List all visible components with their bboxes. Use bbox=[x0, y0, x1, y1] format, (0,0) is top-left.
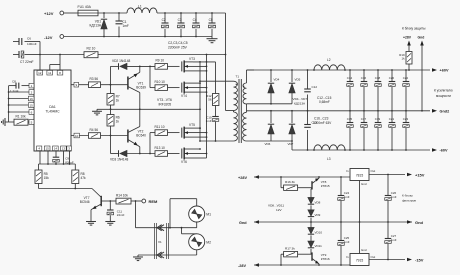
motor M2 fan bbox=[189, 234, 211, 250]
svg-text:VD4: VD4 bbox=[274, 78, 280, 82]
svg-text:BC546: BC546 bbox=[80, 200, 90, 204]
resistor R4 56 bbox=[89, 128, 101, 139]
transformer T1 secondary upper bbox=[243, 70, 254, 104]
svg-text:12V: 12V bbox=[276, 208, 282, 212]
svg-text:мощности: мощности bbox=[436, 94, 451, 98]
svg-text:15: 15 bbox=[30, 103, 34, 107]
transformer T1 primary lower bbox=[234, 112, 238, 141]
svg-text:1000mF 63V: 1000mF 63V bbox=[313, 121, 332, 125]
svg-text:C7 22mF: C7 22mF bbox=[20, 60, 34, 64]
svg-text:VT4: VT4 bbox=[181, 94, 187, 98]
wire +12V to fuse bbox=[64, 12, 78, 14]
label to power amplifier bbox=[434, 88, 453, 98]
svg-text:VD6: VD6 bbox=[265, 142, 271, 146]
capacitor C13 0.68mF bbox=[304, 111, 317, 150]
svg-text:22mF: 22mF bbox=[117, 213, 125, 217]
svg-text:C5: C5 bbox=[209, 18, 213, 22]
op-amp U3 regulator 7915 bbox=[346, 222, 375, 266]
svg-text:1mF: 1mF bbox=[344, 195, 350, 199]
svg-text:-12V: -12V bbox=[44, 35, 53, 40]
wire -12V rail bbox=[64, 36, 212, 38]
wire 7915 out rail bbox=[369, 259, 405, 261]
capacitor C10 1mF snubber bbox=[206, 106, 219, 142]
svg-text:1k: 1k bbox=[402, 57, 406, 61]
ground (input filter) bbox=[207, 37, 218, 43]
label C2..C5 value bbox=[168, 41, 188, 49]
resistor R9 10 bbox=[155, 59, 168, 69]
label C16..C23 value bbox=[313, 117, 332, 125]
wire M1 bottom bbox=[196, 222, 198, 228]
resistor R14 10k bbox=[116, 193, 131, 204]
diode VD9 zener bbox=[308, 210, 321, 217]
svg-text:C16: C16 bbox=[361, 76, 367, 80]
transistor Q7 VT7 BC546 bbox=[80, 189, 101, 220]
transistor Q4 VT4 IRF3205 bbox=[181, 82, 207, 98]
svg-text:X1: X1 bbox=[158, 240, 162, 244]
wire pins 11/8 to VCC bbox=[50, 54, 61, 65]
svg-text:C21: C21 bbox=[389, 117, 395, 121]
inductor L1 bbox=[127, 5, 157, 14]
motor M1 fan bbox=[189, 206, 211, 222]
svg-text:C20: C20 bbox=[389, 76, 395, 80]
capacitor C11 22mF bbox=[107, 201, 125, 220]
svg-text:VD10: VD10 bbox=[315, 230, 323, 234]
svg-text:C17: C17 bbox=[361, 117, 367, 121]
svg-text:R16 3k: R16 3k bbox=[285, 180, 295, 184]
svg-text:In: In bbox=[346, 255, 349, 259]
svg-text:12: 12 bbox=[38, 71, 42, 75]
node +15V output bbox=[407, 173, 425, 178]
pin 4 bbox=[37, 146, 42, 164]
svg-text:TL494MC: TL494MC bbox=[46, 110, 61, 114]
wire R13 to VT6 gate bbox=[168, 153, 180, 155]
svg-text:1mF: 1mF bbox=[391, 195, 397, 199]
svg-text:C4: C4 bbox=[193, 18, 197, 22]
label to filter block bbox=[402, 194, 416, 203]
svg-text:КТ815: КТ815 bbox=[321, 184, 330, 188]
svg-text:Gnd: Gnd bbox=[239, 221, 247, 225]
svg-text:R17 3k: R17 3k bbox=[285, 247, 295, 251]
label VT3..VT6 type bbox=[157, 98, 172, 106]
svg-text:16: 16 bbox=[30, 97, 34, 101]
pin 15b bbox=[44, 146, 50, 164]
pin 12 bbox=[37, 68, 43, 75]
wire VD11 to VT9 base bbox=[310, 249, 312, 255]
wire fuse to L1 bbox=[98, 12, 127, 14]
svg-text:Gnd2: Gnd2 bbox=[440, 109, 450, 113]
svg-text:VD3 1N4148: VD3 1N4148 bbox=[110, 158, 128, 162]
svg-text:C23: C23 bbox=[403, 117, 409, 121]
svg-text:2200mF 25V: 2200mF 25V bbox=[168, 45, 188, 49]
wire aux - rail bbox=[254, 264, 350, 266]
label VD8..VD11 bbox=[268, 203, 284, 211]
svg-text:FU1 40A: FU1 40A bbox=[78, 5, 92, 9]
wire source bus bbox=[206, 55, 208, 159]
svg-text:C22: C22 bbox=[403, 76, 409, 80]
resistor R2 10 bbox=[40, 47, 98, 58]
node REM terminal bbox=[142, 199, 158, 204]
capacitor C2 bbox=[162, 13, 169, 37]
svg-text:R9 10: R9 10 bbox=[156, 59, 165, 63]
wire VD2 to R9 node bbox=[127, 66, 155, 68]
svg-text:Gnd: Gnd bbox=[415, 220, 424, 225]
svg-text:VT3...VT6: VT3...VT6 bbox=[157, 98, 172, 102]
svg-text:+28V: +28V bbox=[403, 36, 412, 40]
svg-text:C18: C18 bbox=[375, 76, 381, 80]
svg-text:C14: C14 bbox=[347, 76, 353, 80]
svg-text:0,68mF: 0,68mF bbox=[319, 100, 330, 104]
wire R11 branch bbox=[150, 133, 155, 154]
wire bottom pins bus bbox=[39, 163, 76, 165]
transistor Q8 VT8 KT815 bbox=[298, 177, 330, 197]
svg-text:47k: 47k bbox=[81, 176, 87, 180]
diode VD2 1N4148 bbox=[112, 59, 130, 69]
wire centre-tap vertical bbox=[225, 13, 227, 111]
node -28V aux input bbox=[238, 263, 259, 268]
svg-text:100mF: 100mF bbox=[27, 42, 37, 46]
svg-text:К усилителю: К усилителю bbox=[434, 88, 453, 92]
wire Gnd tap to protection bbox=[420, 41, 424, 112]
wire R9 to VT3 gate bbox=[168, 65, 180, 67]
svg-text:VD9: VD9 bbox=[315, 213, 321, 217]
pin 15 wire bbox=[8, 103, 34, 108]
svg-text:VD5: VD5 bbox=[295, 78, 301, 82]
connector X1 housing bbox=[155, 223, 169, 259]
label VD4..VD7 type bbox=[293, 97, 308, 105]
resistor R6 1k bbox=[107, 109, 120, 135]
svg-text:1mF: 1mF bbox=[123, 24, 129, 28]
pin 16 wire bbox=[8, 96, 34, 101]
svg-text:1k: 1k bbox=[116, 119, 120, 123]
capacitor C9 820nF bbox=[53, 157, 74, 165]
diode VD4 bbox=[268, 70, 280, 105]
capacitor C24 1mF bbox=[338, 177, 350, 222]
node -15V output bbox=[407, 258, 424, 263]
svg-text:-15V: -15V bbox=[415, 258, 424, 263]
capacitor C7 22mF bbox=[13, 51, 40, 64]
label C12..C15 value bbox=[317, 96, 332, 104]
wire secondary tap lower bbox=[247, 141, 293, 150]
svg-text:56: 56 bbox=[208, 98, 212, 102]
pin 14 bbox=[53, 146, 59, 157]
wire secondary tap upper bbox=[247, 103, 293, 105]
svg-text:C12: C12 bbox=[312, 85, 318, 89]
resistor R10 10 bbox=[155, 80, 168, 90]
svg-text:BC639: BC639 bbox=[136, 86, 146, 90]
svg-text:BC640: BC640 bbox=[136, 134, 146, 138]
pin 2 wire bbox=[8, 90, 34, 95]
svg-text:VD7: VD7 bbox=[288, 142, 294, 146]
wire C6/C7 junction to IC pin12 bbox=[39, 42, 41, 69]
svg-text:C2: C2 bbox=[162, 18, 166, 22]
wire R4 to VT2 base bbox=[101, 135, 128, 137]
transistor Q3 VT3 IRF3205 bbox=[182, 57, 216, 73]
wire L1 to filter caps bbox=[157, 12, 226, 14]
wire R10 to VT4 gate bbox=[168, 87, 180, 89]
connector X1 upper contact bbox=[157, 225, 164, 231]
capacitor C17 bbox=[361, 111, 368, 151]
svg-text:Gnd: Gnd bbox=[361, 182, 367, 186]
wire pin10 line bbox=[71, 133, 89, 138]
node +28V aux input bbox=[238, 175, 259, 180]
resistor R11 10 bbox=[155, 125, 168, 135]
transformer T1 primary upper bbox=[234, 81, 238, 110]
diode VD6 bbox=[265, 111, 275, 146]
pin 3 bbox=[67, 146, 72, 164]
resistor R8 47k bbox=[72, 164, 86, 189]
svg-text:Out: Out bbox=[371, 169, 376, 173]
node +60V output bbox=[432, 68, 449, 72]
wire R14 to REM bbox=[131, 200, 142, 202]
wire aux + rail bbox=[254, 176, 350, 178]
svg-text:VD8: VD8 bbox=[315, 200, 321, 204]
capacitor C14 bbox=[347, 69, 354, 112]
svg-text:C6: C6 bbox=[27, 37, 31, 41]
svg-text:15: 15 bbox=[46, 147, 50, 151]
resistor R16 3k bbox=[281, 177, 298, 190]
svg-text:R2 10: R2 10 bbox=[87, 47, 96, 51]
diode VD10 zener bbox=[308, 222, 323, 234]
wire R11 to VT5 gate bbox=[168, 132, 180, 134]
inductor L3 bbox=[313, 145, 346, 161]
svg-text:DA1: DA1 bbox=[49, 105, 56, 109]
wire R2 to transformer centre-tap drop bbox=[98, 54, 226, 56]
transistor Q2 VT2 BC640 bbox=[128, 109, 146, 153]
capacitor C21 bbox=[389, 111, 396, 151]
wire M2 bottom to ground bbox=[138, 250, 197, 255]
capacitor C4 bbox=[193, 13, 200, 37]
wire mid rail Gnd2 bbox=[247, 110, 431, 112]
svg-text:11: 11 bbox=[48, 71, 51, 75]
svg-text:VT3: VT3 bbox=[189, 57, 195, 61]
transformer T1 core bbox=[236, 75, 242, 144]
svg-text:-60V: -60V bbox=[440, 149, 448, 153]
capacitor C22 bbox=[403, 69, 410, 112]
fuse FU1 40A bbox=[78, 5, 99, 16]
wire centre tap bbox=[226, 111, 234, 113]
resistor R7 1k bbox=[107, 85, 120, 110]
svg-text:К блоку: К блоку bbox=[402, 194, 413, 198]
svg-text:R11 10: R11 10 bbox=[155, 125, 165, 129]
wire R3 to VT1 base bbox=[101, 84, 128, 86]
wire pin9 line bbox=[71, 82, 89, 87]
node Gnd aux input bbox=[239, 220, 259, 225]
wire drain bus lower bbox=[199, 140, 233, 142]
svg-text:R10 10: R10 10 bbox=[155, 80, 166, 84]
transformer T1 secondary lower bbox=[243, 104, 247, 141]
wire left pins common bus bbox=[8, 86, 10, 122]
node -60V output bbox=[432, 148, 448, 152]
svg-text:R4 56: R4 56 bbox=[90, 128, 99, 132]
svg-text:13: 13 bbox=[62, 147, 66, 151]
wire drain bus upper bbox=[199, 62, 233, 141]
wire VD8-VD9 bbox=[310, 205, 312, 209]
svg-text:Out: Out bbox=[371, 255, 376, 259]
svg-text:фильтров: фильтров bbox=[402, 198, 416, 202]
wire M2 top branch bbox=[182, 228, 197, 234]
node +12V input terminal bbox=[44, 11, 64, 16]
svg-text:К блоку защиты: К блоку защиты bbox=[402, 26, 426, 30]
svg-text:1mF: 1mF bbox=[391, 238, 397, 242]
svg-text:REM: REM bbox=[149, 199, 159, 204]
svg-text:M2: M2 bbox=[206, 240, 211, 244]
svg-text:VD8...VD11: VD8...VD11 bbox=[268, 203, 284, 207]
svg-text:T1: T1 bbox=[236, 75, 240, 79]
wire REM to fans bbox=[136, 201, 197, 229]
capacitor C3 bbox=[178, 13, 185, 37]
svg-text:C8: C8 bbox=[12, 80, 16, 84]
svg-text:In: In bbox=[346, 169, 349, 173]
op-amp U1 PWM controller DA1 TL494 bbox=[34, 70, 71, 151]
svg-text:C19: C19 bbox=[375, 117, 381, 121]
capacitor C18 bbox=[375, 69, 382, 112]
transistor Q1 VT1 BC639 bbox=[128, 66, 146, 109]
svg-text:L2: L2 bbox=[327, 58, 331, 62]
wire aux gnd rail bbox=[254, 221, 412, 223]
svg-text:КД213А: КД213А bbox=[90, 23, 102, 27]
wire -rect rail bbox=[292, 149, 430, 151]
svg-text:1mF: 1mF bbox=[206, 119, 212, 123]
node -12V input terminal bbox=[44, 35, 64, 41]
svg-text:7915: 7915 bbox=[356, 258, 364, 262]
svg-text:7815: 7815 bbox=[356, 173, 364, 177]
capacitor C27 1mF bbox=[385, 222, 397, 260]
capacitor C19 bbox=[375, 111, 382, 151]
wire 7815 out rail bbox=[369, 174, 405, 176]
diode VD3 1N4148 bbox=[110, 150, 128, 161]
svg-text:1k: 1k bbox=[116, 98, 120, 102]
svg-text:-28V: -28V bbox=[238, 264, 246, 268]
svg-text:R3 56: R3 56 bbox=[90, 77, 99, 81]
ground (C11) bbox=[105, 220, 115, 226]
svg-text:L1: L1 bbox=[138, 5, 142, 9]
svg-text:VD11: VD11 bbox=[315, 244, 323, 248]
diode VD5 bbox=[289, 70, 301, 104]
resistor R5 15k bbox=[35, 164, 49, 189]
svg-text:IRF3205: IRF3205 bbox=[159, 102, 172, 106]
capacitor C23 bbox=[403, 111, 410, 151]
svg-text:+60V: +60V bbox=[440, 69, 449, 73]
svg-text:VD2 1N4148: VD2 1N4148 bbox=[112, 59, 130, 63]
svg-text:КД213А: КД213А bbox=[294, 101, 306, 105]
capacitor C6 100mF bbox=[13, 37, 40, 46]
diode VD1 KD213A bbox=[90, 13, 108, 37]
capacitor C15 bbox=[347, 111, 354, 151]
capacitor C12 0.68mF bbox=[304, 70, 317, 111]
resistor R12 56 snubber bbox=[206, 62, 219, 106]
diode VD7 bbox=[288, 111, 296, 146]
svg-text:+28V: +28V bbox=[238, 176, 247, 180]
wire VD9 to Gnd rail bbox=[310, 218, 312, 223]
diode VD8 zener bbox=[308, 197, 321, 204]
capacitor C26 1mF bbox=[385, 175, 397, 223]
svg-text:VT5: VT5 bbox=[189, 123, 195, 127]
ground (VT7 emitter) bbox=[86, 220, 96, 226]
resistor R1 10k with ground bbox=[2, 114, 34, 126]
wire VD3 to R13 node bbox=[127, 153, 155, 155]
svg-text:1mF: 1mF bbox=[344, 240, 350, 244]
wire VT7 base line bbox=[101, 200, 116, 202]
capacitor C25 1mF bbox=[338, 222, 350, 265]
ground bus driver stage bbox=[97, 108, 200, 110]
pin 1 with capacitor C8 1,2mF bbox=[9, 80, 34, 93]
ground (driver) bbox=[92, 109, 102, 115]
diode VD11 zener bbox=[308, 241, 322, 248]
ground (fans) bbox=[133, 255, 143, 261]
wire VD3 branch bbox=[111, 136, 119, 154]
pin 13 bbox=[61, 146, 67, 164]
resistor R19 1k protection tap bbox=[399, 41, 412, 71]
op-amp U2 regulator 7815 bbox=[346, 169, 375, 223]
svg-text:R1 10k: R1 10k bbox=[16, 114, 27, 118]
node Gnd aux output bbox=[407, 220, 424, 225]
svg-text:R13 10: R13 10 bbox=[155, 146, 166, 150]
transistor Q9 VT9 KT816 bbox=[298, 252, 330, 265]
svg-text:+12V: +12V bbox=[44, 11, 54, 16]
capacitor C5 bbox=[209, 13, 216, 37]
wire fan M1 loop bbox=[170, 199, 197, 228]
svg-text:Gnd: Gnd bbox=[418, 36, 425, 40]
svg-text:КТ816: КТ816 bbox=[321, 257, 330, 261]
svg-text:C3: C3 bbox=[178, 18, 182, 22]
pin 6 wire bbox=[8, 110, 34, 115]
resistor R13 10 bbox=[155, 146, 168, 156]
wire R5/R8 to VT7 bbox=[39, 188, 93, 190]
svg-text:VT6: VT6 bbox=[181, 160, 187, 164]
svg-text:10: 10 bbox=[75, 134, 79, 138]
svg-text:L3: L3 bbox=[327, 157, 331, 161]
pin 8 bbox=[57, 65, 63, 76]
svg-text:C15: C15 bbox=[347, 117, 353, 121]
node Gnd2 output bbox=[432, 109, 449, 113]
wire +rect rail bbox=[247, 69, 431, 71]
inductor L2 bbox=[313, 58, 346, 71]
capacitor C20 bbox=[389, 69, 396, 112]
wire VD2 branch bbox=[111, 66, 119, 84]
connector X1 lower contact bbox=[157, 252, 164, 258]
svg-text:15k: 15k bbox=[44, 176, 50, 180]
resistor R17 3k bbox=[281, 247, 298, 265]
pin 11 bbox=[47, 65, 53, 76]
capacitor C16 bbox=[361, 69, 368, 112]
svg-text:R14 10k: R14 10k bbox=[116, 193, 128, 197]
svg-text:14: 14 bbox=[54, 147, 58, 151]
svg-text:Gnd: Gnd bbox=[361, 248, 367, 252]
svg-text:+15V: +15V bbox=[415, 173, 425, 178]
capacitor C1 1mF bbox=[116, 13, 129, 37]
label protection block bbox=[402, 26, 426, 39]
svg-text:M1: M1 bbox=[206, 213, 211, 217]
transistor Q6 VT6 IRF3205 bbox=[181, 148, 207, 165]
wire VD10-VD11 bbox=[310, 235, 312, 241]
transistor Q5 VT5 IRF3205 bbox=[182, 123, 208, 138]
resistor R3 56 bbox=[89, 77, 101, 88]
wire R10 branch bbox=[150, 66, 155, 87]
